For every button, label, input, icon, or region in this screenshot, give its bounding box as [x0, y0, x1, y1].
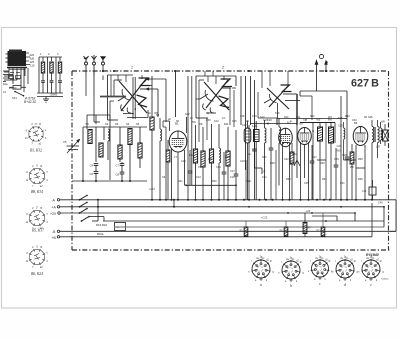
wire SK3 internal taps: [196, 76, 236, 118]
wire osc bottom rail: [72, 180, 147, 182]
svg-text:S6: S6: [148, 111, 152, 115]
wire gram column: [300, 91, 321, 120]
switch contact S1d: [81, 216, 104, 222]
terminal -A: [52, 198, 397, 202]
output transformer secondary: [378, 120, 380, 158]
wire mid verticals: [166, 76, 192, 200]
junction dot on top dashed line: [113, 70, 250, 72]
transformer T1 primary leads: [4, 68, 25, 87]
chassis dashed border bottom: [72, 249, 390, 251]
resistor R5: [128, 129, 132, 182]
svg-text:C44: C44: [362, 190, 367, 193]
coil S2: [108, 129, 110, 160]
svg-text:0T: 0T: [198, 166, 201, 169]
capacitor C26: [342, 120, 349, 200]
component value labels row2: [174, 153, 363, 169]
resistor R17: [300, 123, 335, 200]
ground symbol selector: [43, 97, 49, 103]
svg-text:C0552a: C0552a: [381, 279, 389, 281]
wire centre column C43: [337, 96, 343, 200]
svg-text:S3: S3: [115, 122, 119, 126]
svg-text:R15 R16: R15 R16: [96, 223, 107, 227]
wire bus 199 right corner: [378, 200, 396, 232]
svg-text:6dT: 6dT: [338, 116, 343, 120]
svg-text:d: d: [344, 283, 346, 287]
wire battery link: [92, 199, 99, 221]
label B6 K24: [31, 272, 43, 277]
resistor R3: [99, 143, 103, 157]
svg-text:R9: R9: [199, 122, 203, 126]
svg-text:S5: S5: [136, 122, 140, 126]
svg-text:SK1: SK1: [12, 96, 17, 100]
svg-text:C15: C15: [232, 120, 237, 123]
svg-text:S14: S14: [214, 119, 219, 123]
coil S18: [279, 118, 281, 186]
coil S8: [156, 113, 162, 200]
svg-text:C29: C29: [334, 158, 339, 161]
svg-text:W4: W4: [328, 116, 332, 119]
socket diagram b: [278, 258, 304, 289]
selector cap Cc: [58, 81, 62, 83]
svg-text:C8: C8: [116, 173, 120, 177]
pickup terminal P1: [315, 60, 318, 91]
svg-text:C19: C19: [252, 115, 257, 118]
bandswitch SK2 shaft lines: [133, 77, 135, 119]
output transformer core lines: [373, 127, 376, 142]
selector wires mid: [43, 73, 60, 80]
wire B1 cathode leads: [172, 149, 185, 200]
wire +23 link: [261, 206, 385, 227]
svg-text:30000: 30000: [50, 93, 58, 97]
socket key B1 K32: [25, 123, 47, 146]
resistor R20 vertical: [240, 221, 248, 237]
wire bundle verticals top: [199, 88, 234, 142]
svg-text:C20: C20: [267, 118, 272, 122]
svg-text:gr: gr: [263, 169, 265, 173]
svg-text:R25: R25: [225, 156, 230, 159]
extra capacitor Ca3: [252, 125, 257, 168]
bandswitch SK2 inner frame: [108, 80, 122, 96]
label B8 K34: [31, 190, 43, 195]
loudspeaker: [381, 121, 388, 147]
selector bank top rail: [39, 57, 62, 93]
component value labels row3: [162, 176, 363, 185]
resistor R8: [192, 120, 198, 200]
wire bus 192 segment: [192, 185, 255, 187]
svg-text:R28: R28: [270, 162, 275, 165]
bandswitch SK2 rotor blades: [118, 78, 150, 113]
svg-text:+C17: +C17: [149, 188, 156, 191]
selector lower leads: [43, 82, 60, 93]
model label 627B: [351, 77, 379, 89]
wire pickup box: [300, 91, 347, 120]
wire bus 221: [92, 220, 396, 222]
label B1 K32: [30, 149, 42, 154]
svg-text:C5: C5: [63, 140, 67, 144]
resistor R10: [209, 124, 213, 200]
label B5 K37: [32, 229, 44, 234]
bandswitch SK3 frame: [196, 76, 236, 118]
svg-text:627 B: 627 B: [351, 77, 379, 89]
svg-text:R35: R35: [320, 162, 325, 165]
svg-text:RY1940: RY1940: [366, 253, 379, 257]
selector top pins: [40, 53, 60, 61]
capacitor C44: [362, 180, 376, 200]
bandswitch SK2 lower contacts: [121, 105, 148, 118]
capacitor C8: [116, 172, 125, 181]
label S1: [86, 122, 90, 126]
chassis dashed border right: [388, 71, 390, 250]
svg-text:R38: R38: [358, 158, 363, 161]
wire SK2 internal taps: [110, 75, 152, 120]
wire bus 185: [149, 184, 237, 191]
chassis dashed border left: [71, 71, 73, 250]
svg-text:B+42-52: B+42-52: [24, 100, 36, 104]
wire vertical drop 174: [173, 199, 175, 208]
bandswitch SK2 frame: [108, 75, 134, 120]
capacitor C6: [90, 172, 99, 181]
svg-text:C6: C6: [90, 172, 94, 176]
socket diagram d: [332, 257, 358, 288]
aerial coil rail: [83, 115, 147, 181]
terminal +2V: [50, 212, 355, 216]
volume pot R24: [290, 125, 300, 178]
svg-text:C21: C21: [262, 176, 267, 179]
svg-text:1: 1: [131, 66, 133, 70]
extra resistor Rx1: [166, 140, 170, 200]
svg-text:C13: C13: [196, 176, 201, 179]
svg-text:+23: +23: [306, 209, 311, 213]
svg-text:C22: C22: [284, 158, 289, 161]
wire link segments right: [248, 160, 365, 222]
tiny code C0552a: [381, 279, 389, 281]
svg-text:+2V: +2V: [50, 212, 57, 216]
wire B6 leads: [356, 145, 365, 200]
svg-text:S2: S2: [105, 122, 109, 126]
AF tube B5: [298, 122, 312, 145]
svg-text:0.1: 0.1: [222, 117, 226, 120]
svg-text:S16: S16: [240, 115, 245, 118]
fuse F1: [9, 86, 26, 90]
selector cap Ca: [41, 81, 45, 83]
svg-text:2: 2: [221, 66, 224, 70]
terminal +B: [52, 236, 373, 240]
svg-text:W5: W5: [317, 119, 321, 122]
labels coil bank: [115, 122, 140, 126]
resistor R7: [150, 76, 154, 200]
wire IF row top rail: [277, 119, 347, 126]
resistor R9: [199, 122, 205, 200]
wire gray AVC: [86, 76, 126, 97]
label 2 on frame: [221, 66, 224, 70]
svg-text:C4: C4: [90, 164, 94, 168]
resistor R22 vertical: [317, 213, 325, 237]
socket diagram c: [308, 257, 333, 287]
pickup knob circle: [319, 54, 323, 58]
wire IF verticals: [249, 125, 255, 200]
extra resistor Rx3: [350, 144, 354, 200]
ballast R15 R16: [96, 223, 126, 231]
svg-text:C10: C10: [181, 160, 186, 163]
svg-text:S26: S26: [368, 115, 373, 119]
wire stub top dashes: [94, 71, 288, 88]
socket diagram e: [358, 257, 384, 288]
svg-text:+B: +B: [52, 236, 57, 240]
svg-text:C31: C31: [340, 182, 345, 185]
switch contact S1b: [79, 202, 88, 208]
svg-text:110: 110: [30, 64, 35, 68]
svg-text:C16: C16: [230, 176, 235, 179]
label S2: [105, 122, 109, 126]
wire right bundle: [251, 88, 277, 125]
svg-text:S4: S4: [126, 122, 130, 126]
socket key B5 K37: [26, 207, 49, 230]
resistor R18: [326, 123, 334, 200]
switch contact S1c: [79, 208, 88, 214]
svg-text:R39: R39: [358, 178, 363, 181]
socket key B6 K24: [26, 246, 49, 269]
mains switch SK1: [12, 91, 24, 100]
detector tube B4: [279, 121, 293, 147]
resistor R4: [118, 127, 122, 162]
bandswitch SK4 rotor blades: [264, 85, 292, 109]
resistor R21 vertical: [280, 221, 288, 237]
selector cap Cb: [50, 81, 54, 83]
svg-text:C43: C43: [337, 144, 342, 148]
switch contact S1a: [79, 195, 88, 201]
terminal +A: [52, 205, 385, 209]
extra capacitor Ca2: [222, 152, 227, 200]
svg-text:c4: c4: [3, 90, 6, 94]
extra capacitor Ca1: [188, 150, 193, 186]
wire B4 leads: [283, 142, 290, 200]
svg-text:W8: W8: [381, 121, 385, 124]
wire bus 199 dots: [151, 199, 373, 201]
label R15a: [97, 232, 104, 236]
terminal -B: [52, 230, 396, 234]
svg-text:+C23: +C23: [261, 216, 268, 220]
labels R7: [148, 111, 159, 115]
svg-text:C17: C17: [230, 169, 235, 173]
output transformer S26 primary: [368, 115, 374, 200]
resistor R11: [224, 122, 230, 200]
svg-text:R11: R11: [224, 122, 229, 126]
aerial terminal A1: [84, 56, 89, 76]
wire aerial into switch: [86, 76, 103, 123]
capacitor C4: [90, 164, 99, 172]
svg-text:R32: R32: [286, 178, 291, 181]
electrolytic C21 pill: [242, 121, 251, 200]
drawing number RY1940: [366, 253, 379, 257]
svg-text:b: b: [290, 284, 292, 288]
extra capacitor Ca5: [334, 148, 339, 200]
padder trimmer C5: [63, 139, 80, 153]
oscillator section verticals: [241, 76, 255, 170]
svg-text:R26: R26: [212, 180, 217, 183]
selector resistor Rc: [58, 62, 61, 73]
capacitor C20: [250, 118, 297, 200]
svg-text:L27: L27: [376, 145, 381, 149]
svg-text:C12: C12: [185, 113, 190, 116]
component value labels row1: [150, 112, 368, 123]
mixer tube B1: [169, 122, 187, 153]
earth terminal: [101, 57, 106, 73]
svg-text:C26: C26: [342, 153, 347, 157]
wire -B corner right: [390, 230, 396, 232]
svg-text:1W: 1W: [208, 158, 212, 161]
svg-text:R36: R36: [322, 178, 327, 181]
svg-text:R40: R40: [345, 115, 350, 118]
svg-text:R30: R30: [206, 119, 211, 122]
pickup terminal P2: [325, 61, 328, 73]
svg-text:C17: C17: [242, 124, 247, 127]
wire top distribution: [146, 71, 176, 127]
svg-text:S24: S24: [310, 115, 315, 118]
svg-text:4T: 4T: [150, 120, 153, 123]
socket diagram a: [248, 257, 274, 288]
bandswitch SK3 rotor blades: [200, 79, 232, 110]
power transformer T1 core: [6, 50, 31, 70]
svg-text:+A: +A: [52, 205, 57, 209]
extra capacitor Ca4: [310, 145, 315, 200]
svg-text:C18: C18: [240, 160, 245, 163]
svg-text:C7: C7: [116, 164, 120, 168]
output tube B6: [353, 121, 368, 146]
svg-text:R21: R21: [178, 180, 183, 183]
selector resistor Rb: [50, 62, 53, 73]
svg-text:C14: C14: [216, 166, 221, 169]
label 30000: [50, 93, 58, 97]
svg-text:R29: R29: [246, 180, 251, 183]
svg-text:R15a: R15a: [97, 232, 104, 236]
svg-text:C25: C25: [304, 182, 309, 185]
coil S17: [260, 115, 266, 200]
wire B5 leads: [301, 142, 309, 200]
svg-text:C27: C27: [312, 156, 317, 159]
coil S14: [214, 119, 221, 200]
resistor R6: [138, 127, 142, 168]
label A-5763: [24, 97, 36, 104]
svg-text:R11: R11: [317, 230, 322, 233]
label 1 on frame: [131, 66, 133, 70]
capacitor C17: [230, 130, 238, 200]
svg-text:S21: S21: [296, 116, 301, 119]
selector bottom bus: [37, 93, 63, 97]
aerial terminal A2: [92, 55, 97, 96]
wire extra verticals lower: [246, 150, 361, 200]
labels W5 W6: [303, 119, 343, 128]
svg-text:S23: S23: [262, 156, 267, 159]
resistor R19 vertical: [303, 213, 311, 237]
chassis dashed border top: [72, 70, 388, 72]
svg-text:R31: R31: [292, 153, 297, 156]
svg-text:W3: W3: [337, 149, 341, 153]
svg-text:G23: G23: [263, 119, 268, 122]
svg-text:a: a: [260, 283, 262, 287]
wire bus 236 up corner: [371, 203, 373, 237]
extra resistor Rx2: [290, 143, 294, 200]
wire bus 227 gray: [114, 226, 384, 228]
capacitor C7: [116, 162, 125, 172]
IF transformer box S17: [252, 121, 259, 200]
resistor R2: [88, 130, 92, 144]
wire SK4 output: [278, 94, 301, 125]
svg-text:1T: 1T: [174, 156, 177, 159]
svg-text:b2a: b2a: [3, 82, 8, 86]
T1 terminal labels: [3, 53, 35, 94]
coil L25 vert: [344, 122, 345, 160]
bandswitch SK3 lower contacts: [203, 104, 216, 114]
svg-text:C46: C46: [378, 202, 383, 205]
wire pickup lower: [255, 168, 266, 174]
grid cap lead B1: [163, 117, 187, 133]
speaker field coil L27: [376, 122, 382, 149]
selector resistor Ra: [41, 62, 44, 73]
svg-text:S1: S1: [86, 122, 90, 126]
socket key B8 K34: [26, 165, 49, 188]
svg-text:S20: S20: [284, 116, 289, 119]
svg-text:S19: S19: [275, 112, 280, 115]
svg-text:C30: C30: [352, 119, 357, 122]
